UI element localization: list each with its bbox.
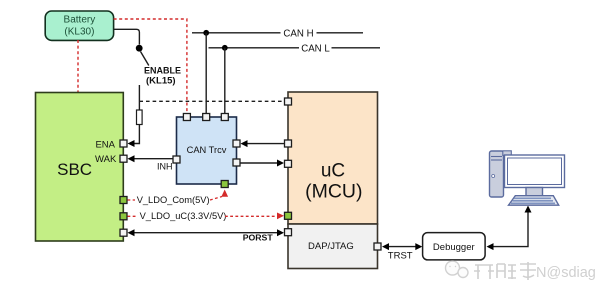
pin PORST (SBC) (120, 229, 127, 236)
switch S1 ignition KL15 (136, 45, 149, 66)
wire CAN L to CAN Trcv (224, 48, 226, 113)
svg-text:INH: INH (157, 162, 173, 172)
wire VBAT battery to CAN Trcv supply (red dashed) (114, 19, 187, 113)
wire CAN H to CAN Trcv (205, 33, 207, 113)
svg-text:V_LDO_Com(5V): V_LDO_Com(5V) (137, 195, 210, 205)
pin RXD (uC left 3) (285, 160, 292, 167)
svg-text:ENA: ENA (95, 139, 115, 150)
DAP/JTAG block (288, 224, 378, 269)
wire RXD CAN Trcv to uC (arrow right) (241, 160, 285, 167)
svg-text:PORST: PORST (243, 233, 274, 243)
svg-text:N@sdiag: N@sdiag (536, 265, 596, 281)
svg-text:ENABLE: ENABLE (144, 66, 181, 76)
battery (KL30) (45, 11, 113, 40)
pin PORST (uC left) (285, 229, 292, 236)
wire CAN H bus (192, 28, 363, 39)
svg-text:(KL30): (KL30) (64, 27, 94, 38)
pin INH (CAN Trcv left) (173, 156, 180, 163)
CAN transceiver U2 (177, 117, 237, 184)
wire TRST DAP/JTAG to Debugger (double arrow) (382, 243, 422, 261)
svg-text:CAN L: CAN L (301, 43, 330, 54)
pin KL15 sense (uC top-left) (285, 98, 292, 105)
svg-text:uC: uC (321, 161, 345, 182)
svg-text:DAP/JTAG: DAP/JTAG (308, 241, 354, 252)
SBC U1 (36, 93, 124, 242)
PC host icon (490, 151, 565, 205)
svg-text:V_LDO_uC(3.3V/5V): V_LDO_uC(3.3V/5V) (140, 211, 227, 221)
pin V_LDO_Com (SBC, green) (120, 197, 127, 204)
wire KL15 to uC (black dashed) (139, 100, 284, 102)
pin TXD (CAN Trcv right 2) (233, 159, 240, 166)
svg-text:(KL15): (KL15) (146, 76, 176, 87)
watermark (446, 261, 596, 281)
debugger (423, 233, 486, 260)
wire battery to ignition switch (114, 29, 140, 44)
svg-text:WAK: WAK (95, 154, 117, 165)
wire TXD uC to CAN Trcv (arrow left) (241, 140, 285, 147)
node CAN H junction (203, 30, 209, 36)
pin TXD (uC left 2) (285, 140, 292, 147)
pin RXD (CAN Trcv right 1) (233, 140, 240, 147)
svg-text:TRST: TRST (388, 251, 413, 262)
svg-text:CAN Trcv: CAN Trcv (187, 145, 227, 155)
svg-text:(MCU): (MCU) (305, 181, 362, 203)
pin V_LDO_uC (SBC, green) (120, 213, 127, 220)
pin VS (CAN Trcv top 1) (183, 114, 190, 121)
wire resistor to ENA pin (128, 125, 140, 148)
pin WAK (120, 155, 127, 162)
wire CAN L bus (209, 43, 381, 54)
wire switch to resistor (138, 85, 140, 110)
net V_LDO_uC(3.3V/5V) (red dashed to uC VDD) (128, 211, 285, 221)
pin VDD (uC left, green) (285, 212, 292, 219)
pin TRST (DAP/JTAG right) (374, 243, 381, 250)
label ENABLE (KL15) (144, 66, 181, 87)
resistor R1 (137, 110, 143, 125)
wire debugger to PC (double arrow) (487, 206, 532, 251)
pin ENA (120, 140, 127, 147)
svg-text:Debugger: Debugger (433, 242, 475, 253)
wire VBAT battery to SBC (red dashed) (77, 40, 79, 92)
pin CANH (CAN Trcv top 2) (203, 114, 210, 121)
pin CANL (CAN Trcv top 3) (221, 114, 228, 121)
node CAN L junction (222, 45, 228, 51)
wire PORST (double arrow) (128, 229, 285, 243)
pin VIO (CAN Trcv bottom, green) (221, 181, 228, 188)
svg-text:SBC: SBC (57, 160, 92, 179)
svg-text:CAN H: CAN H (283, 28, 313, 39)
net V_LDO_Com(5V) (red dashed to CAN Trcv VIO) (128, 190, 229, 205)
wire INH CAN Trcv to WAK (arrow left) (128, 155, 174, 171)
svg-text:Battery: Battery (64, 15, 96, 26)
microcontroller U3 uC (MCU) (288, 92, 378, 224)
